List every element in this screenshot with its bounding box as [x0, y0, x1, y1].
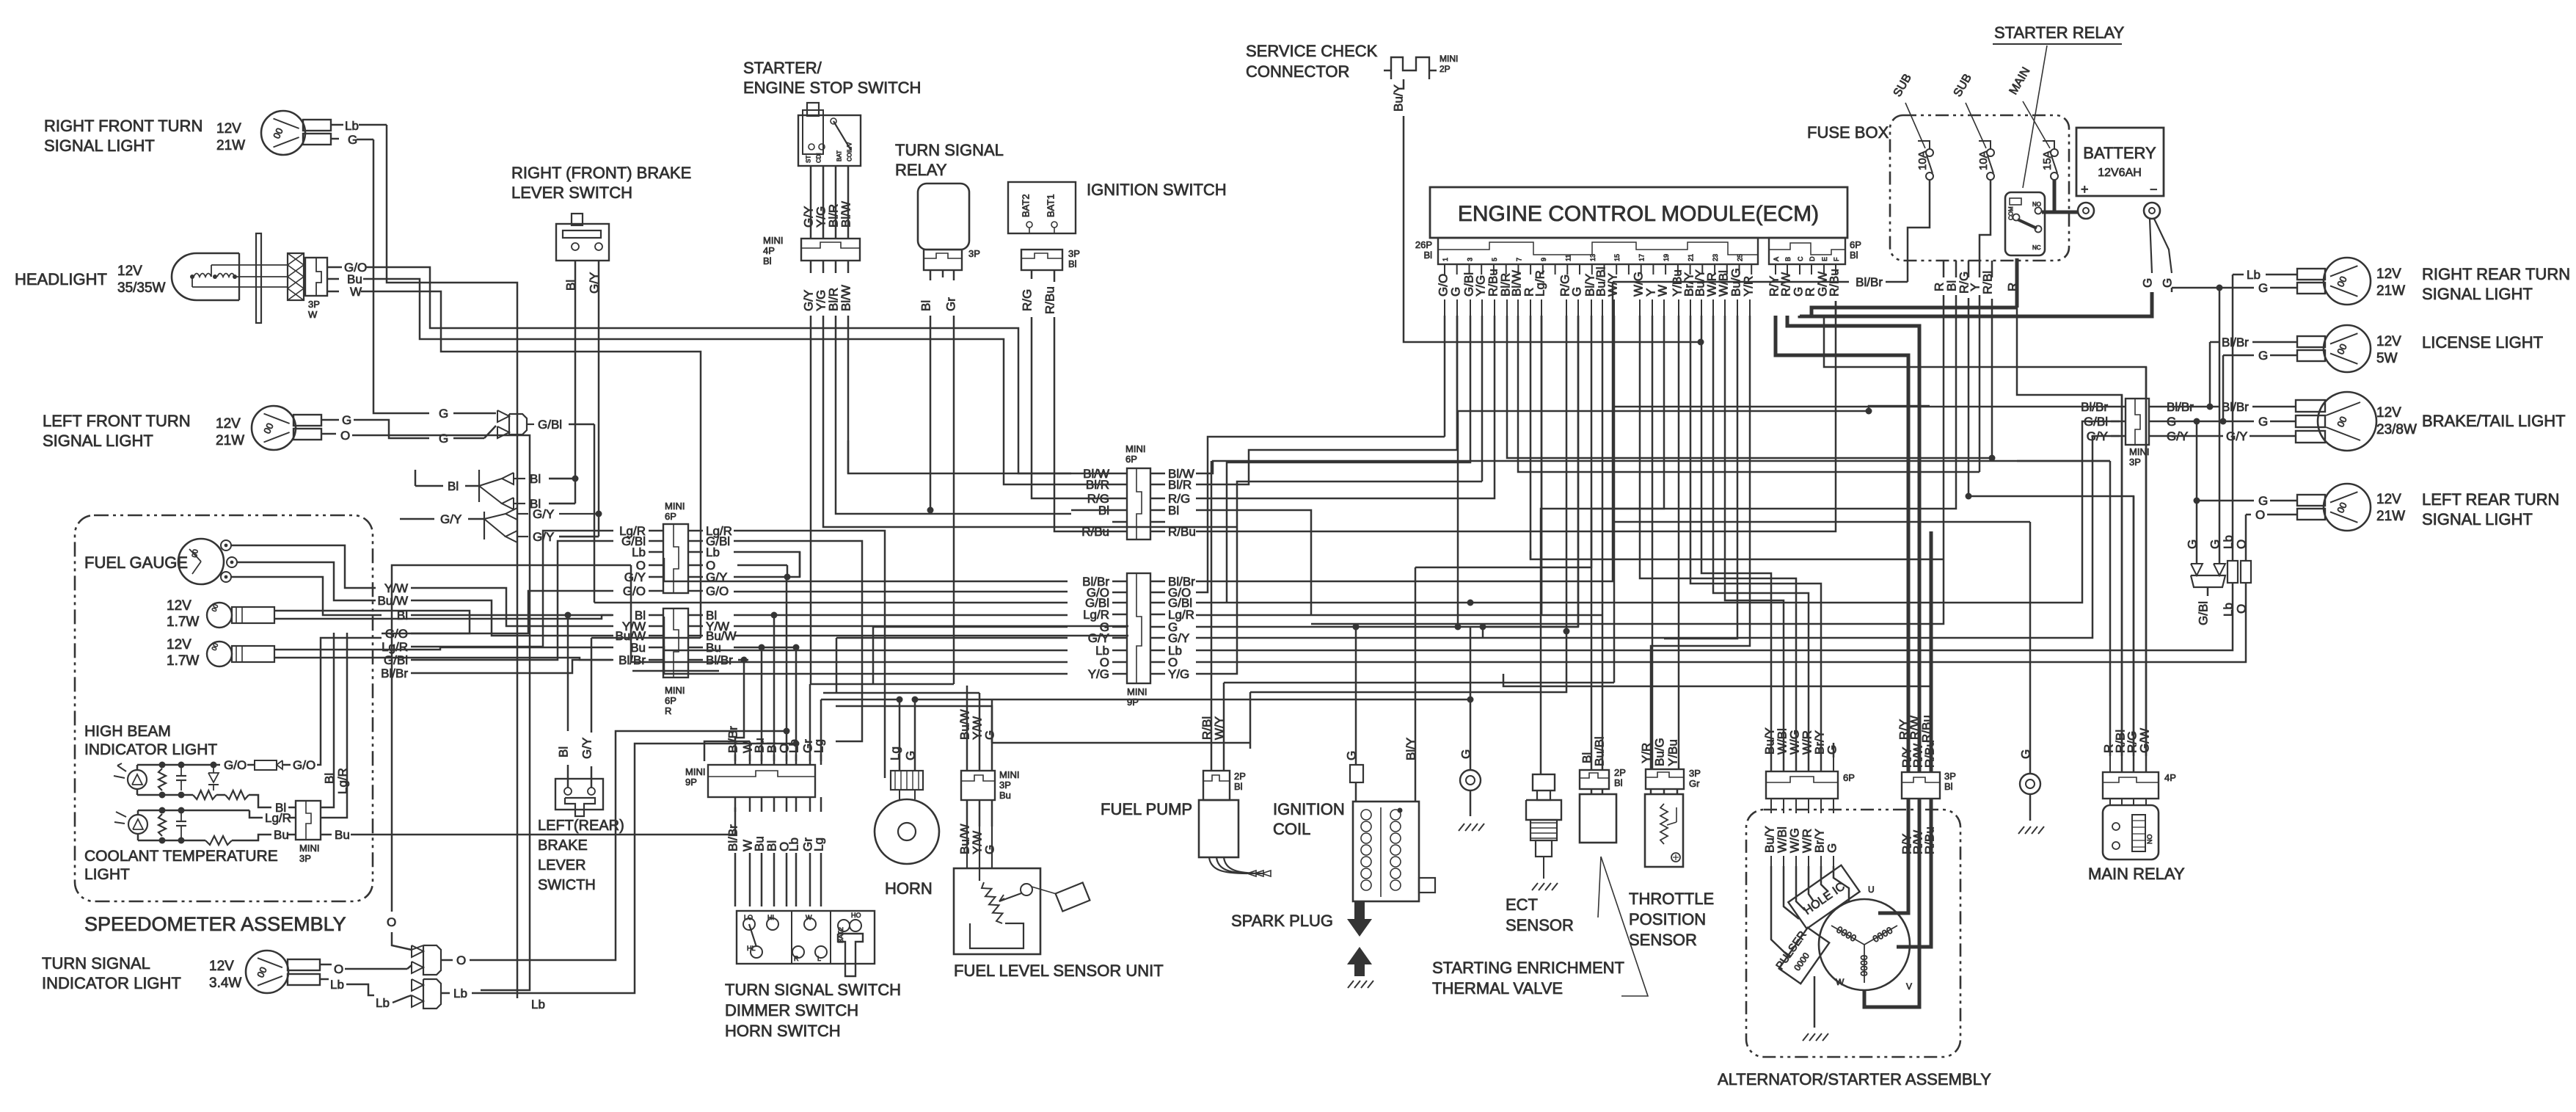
svg-text:ENGINE CONTROL MODULE(ECM): ENGINE CONTROL MODULE(ECM): [1458, 202, 1819, 226]
svg-text:Bl: Bl: [1423, 250, 1432, 261]
svg-text:2P: 2P: [1234, 771, 1246, 782]
wire bus to turn signal switch: [734, 738, 737, 761]
svg-text:HEADLIGHT: HEADLIGHT: [15, 270, 107, 288]
svg-text:6P: 6P: [1843, 772, 1855, 783]
wire Lg/R row right2: [1196, 614, 1602, 617]
turn signal relay: [918, 183, 969, 250]
svg-text:Lb: Lb: [706, 545, 720, 559]
wire ECM W/Y: [1613, 316, 1616, 683]
svg-text:6P: 6P: [1125, 454, 1137, 465]
svg-text:THROTTLE: THROTTLE: [1629, 890, 1714, 908]
ECM 6P connector: [1769, 238, 1845, 264]
svg-text:6P: 6P: [665, 695, 676, 706]
svg-text:R: R: [794, 955, 799, 962]
svg-text:MINI: MINI: [665, 685, 685, 696]
ground ring fuel area: [1460, 770, 1481, 791]
svg-text:G/O: G/O: [293, 758, 315, 772]
svg-text:3P: 3P: [1944, 771, 1956, 782]
wire G vertical rear 1: [2196, 421, 2198, 556]
wire G rear run: [2164, 421, 2181, 423]
headlight bulb: [172, 253, 239, 300]
wire G row junction dots: [1353, 624, 1360, 631]
wire ECM R/G: [1250, 316, 1566, 692]
svg-text:SIGNAL LIGHT: SIGNAL LIGHT: [44, 137, 155, 155]
rear diode pair: [2196, 556, 2198, 564]
svg-text:SIGNAL LIGHT: SIGNAL LIGHT: [2422, 510, 2533, 528]
svg-text:COOLANT TEMPERATURE: COOLANT TEMPERATURE: [84, 848, 278, 865]
svg-text:STARTER/: STARTER/: [743, 59, 822, 77]
wire Bl/W row left: [1071, 473, 1112, 475]
svg-text:+: +: [2081, 182, 2089, 197]
battery negative terminal: [2144, 203, 2160, 219]
resistor high beam: [255, 760, 277, 770]
wire ECM Bu/Bl: [1602, 316, 1604, 615]
svg-text:LEFT(REAR): LEFT(REAR): [538, 818, 624, 834]
high beam resistor leg: [158, 768, 166, 791]
wire Bl row left: [1071, 509, 1112, 512]
svg-text:HIGH BEAM: HIGH BEAM: [84, 723, 171, 740]
fuse SUB 1 label: [1891, 72, 1914, 99]
speedometer assembly box: [75, 515, 373, 901]
wire R/G main relay: [2133, 496, 2135, 756]
ECM 6P pin stubs and labels: [1775, 264, 1776, 275]
wire Y/W row right: [734, 625, 1128, 628]
svg-text:Bl: Bl: [1068, 258, 1077, 269]
svg-text:10A: 10A: [1916, 150, 1929, 170]
svg-text:SPEEDOMETER ASSEMBLY: SPEEDOMETER ASSEMBLY: [84, 913, 346, 935]
headlight socket hatch: [288, 253, 304, 300]
wire ECM R thick: [1811, 308, 2017, 316]
svg-text:Bu: Bu: [274, 828, 289, 842]
wire ECM W: [1541, 316, 1664, 774]
svg-text:LEFT REAR TURN: LEFT REAR TURN: [2422, 490, 2559, 509]
fuse 15A: [2051, 149, 2058, 156]
svg-text:O: O: [334, 962, 343, 976]
wire ECM R/Y thick: [1776, 316, 1908, 772]
svg-text:SPARK PLUG: SPARK PLUG: [1231, 912, 1333, 930]
svg-text:IGNITION SWITCH: IGNITION SWITCH: [1087, 181, 1227, 199]
wire fuel gauge Bl: [231, 577, 382, 615]
wire ECM W/R: [1713, 316, 1809, 771]
svg-text:G/O: G/O: [623, 584, 646, 598]
svg-text:G/Y: G/Y: [440, 512, 461, 526]
wire Bu/Bl link: [1602, 615, 1604, 770]
svg-text:Bu/Bl: Bu/Bl: [1593, 736, 1607, 766]
svg-text:DIMMER SWITCH: DIMMER SWITCH: [725, 1001, 858, 1020]
svg-text:STARTER RELAY: STARTER RELAY: [1994, 23, 2125, 42]
svg-text:5: 5: [1491, 258, 1498, 261]
svg-text:LO: LO: [744, 914, 753, 921]
alternator assembly box: [1746, 810, 1960, 1057]
svg-text:13: 13: [1589, 254, 1597, 261]
ECM 26P pin stubs and labels: [1444, 264, 1445, 275]
svg-text:HL: HL: [747, 945, 756, 952]
svg-text:A: A: [1773, 257, 1780, 261]
svg-text:G: G: [2258, 349, 2268, 363]
svg-text:NO: NO: [2032, 201, 2041, 208]
svg-text:D: D: [1809, 256, 1816, 261]
svg-text:G: G: [1825, 843, 1839, 853]
left front turn signal bulb: [252, 406, 296, 450]
svg-text:G/Bl: G/Bl: [2197, 601, 2211, 625]
wire Bl/Br jog: [411, 660, 613, 673]
ignition coil: [1353, 802, 1419, 901]
svg-text:MINI: MINI: [999, 769, 1019, 780]
pulser ground wire: [1814, 976, 1816, 1028]
svg-text:FUEL PUMP: FUEL PUMP: [1101, 800, 1192, 818]
wire ECM R: [1530, 316, 1944, 559]
svg-text:Lb: Lb: [2222, 603, 2236, 617]
svg-text:W: W: [1656, 285, 1670, 297]
wire ECM Bu/G: [1664, 316, 1737, 639]
wire R/Bu row right long: [1196, 301, 1836, 531]
svg-text:NO: NO: [2146, 835, 2153, 845]
svg-text:9: 9: [1540, 258, 1547, 261]
ECM box: [1430, 187, 1847, 238]
svg-text:TURN SIGNAL: TURN SIGNAL: [42, 954, 150, 973]
wire R/Y thick top: [1907, 744, 1911, 772]
svg-text:BAT1: BAT1: [1045, 194, 1056, 217]
wire G/O from headlight: [366, 267, 1071, 473]
svg-text:21: 21: [1687, 254, 1695, 261]
high beam circuit top rail: [136, 765, 139, 770]
svg-text:G: G: [2208, 539, 2222, 549]
fuse 10A: [1987, 149, 1994, 156]
wire Bl/R stop switch down: [836, 316, 1071, 514]
svg-text:Lg: Lg: [812, 739, 826, 753]
svg-text:Bl: Bl: [397, 608, 408, 622]
wire Y/G row right2: [1196, 481, 1482, 674]
wire Bl up from meter connector: [330, 633, 334, 807]
wire Lg/R jog: [411, 531, 613, 647]
svg-text:Lb: Lb: [2222, 535, 2236, 549]
svg-text:SENSOR: SENSOR: [1506, 916, 1574, 934]
connector ignition 3P: [1021, 250, 1062, 270]
connector MINI 6P R: [663, 608, 688, 677]
wire Lg horn jog: [821, 699, 900, 765]
svg-text:ENGINE STOP SWITCH: ENGINE STOP SWITCH: [743, 79, 921, 97]
svg-text:HORN SWITCH: HORN SWITCH: [725, 1022, 841, 1040]
throttle position sensor body: [1645, 794, 1683, 867]
wire Bl relay down: [930, 316, 932, 510]
wire O vertical rear: [2245, 515, 2247, 556]
fuel gauge: [178, 539, 224, 584]
wire run y700 brake Bl: [549, 503, 575, 505]
wire Y/W jog: [411, 588, 613, 626]
svg-text:MAIN RELAY: MAIN RELAY: [2088, 865, 2185, 883]
wire Y/G drop right: [1503, 674, 1750, 686]
svg-text:B: B: [1784, 257, 1792, 261]
wire Bl/Br row right: [738, 659, 748, 661]
svg-text:12V: 12V: [2376, 492, 2401, 507]
wire run y952 to ground G: [992, 699, 1470, 701]
svg-text:Bl: Bl: [448, 479, 459, 493]
coolant temperature lamp: [128, 815, 147, 834]
svg-text:Bu: Bu: [335, 828, 350, 842]
wire Bl/Br rear run: [1613, 406, 2111, 408]
wire bus center horizontals: [847, 440, 850, 473]
throttle position sensor connector 3P: [1646, 769, 1684, 789]
svg-text:G: G: [983, 845, 997, 854]
svg-text:Y/R: Y/R: [1742, 276, 1756, 297]
svg-text:Bl/Y: Bl/Y: [1404, 738, 1418, 760]
svg-text:6P: 6P: [665, 511, 676, 522]
right front turn signal bulb: [261, 111, 305, 155]
wire ECM Y/G: [1481, 316, 1484, 481]
wire staircase center bottom: [823, 692, 979, 694]
wire ECM Y: [1652, 316, 1654, 769]
svg-text:TURN SIGNAL SWITCH: TURN SIGNAL SWITCH: [725, 981, 901, 999]
starting enrichment leader: [1601, 857, 1648, 996]
svg-text:21W: 21W: [2376, 283, 2405, 299]
wire R/G row left: [1071, 498, 1112, 500]
connector MINI 9P center: [1127, 573, 1150, 683]
svg-text:INDICATOR LIGHT: INDICATOR LIGHT: [42, 974, 181, 992]
svg-text:1.7W: 1.7W: [167, 653, 199, 669]
wire ECM W/G: [1640, 316, 1796, 771]
svg-text:Lb: Lb: [787, 739, 801, 753]
wire left rows extra: [630, 565, 632, 662]
svg-text:U: U: [1868, 884, 1875, 895]
wire G/Bl row right: [734, 541, 862, 697]
svg-text:G: G: [439, 407, 448, 421]
wire G/O jog: [411, 591, 613, 633]
wire fuel gauge Y/W: [231, 545, 376, 588]
wire O from MINI6P down: [392, 565, 631, 912]
alternator thick leads: [1878, 799, 1908, 913]
svg-text:SIGNAL LIGHT: SIGNAL LIGHT: [2422, 285, 2533, 303]
wire meter bulb 1: [274, 611, 470, 633]
svg-text:Bl: Bl: [1168, 504, 1179, 517]
svg-text:BAT: BAT: [836, 150, 843, 161]
svg-text:POSITION: POSITION: [1629, 910, 1706, 929]
wire ECM G thick: [1800, 294, 2152, 316]
svg-text:Bl/Br: Bl/Br: [381, 666, 408, 680]
svg-text:LEVER SWITCH: LEVER SWITCH: [511, 183, 632, 202]
svg-text:Bl: Bl: [530, 472, 541, 486]
svg-text:INDICATOR LIGHT: INDICATOR LIGHT: [84, 741, 217, 758]
wire G left front turn: [354, 420, 400, 438]
service check connector MINI 2P: [1391, 57, 1429, 79]
svg-text:MINI: MINI: [1440, 54, 1458, 64]
svg-text:O: O: [340, 429, 350, 443]
svg-text:Bl/Br: Bl/Br: [2222, 400, 2249, 414]
svg-text:L: L: [817, 955, 821, 962]
fuse 10A: [1926, 149, 1933, 156]
ignition switch: [1008, 182, 1076, 233]
coolant resistor leg: [158, 814, 166, 836]
wire ECM R/W thick: [1787, 316, 1919, 772]
wire Lg/R up from meter connector: [336, 633, 347, 818]
svg-text:Bl/Br: Bl/Br: [2222, 335, 2249, 349]
diode cluster O indicator: [412, 945, 423, 957]
svg-text:Bl: Bl: [564, 280, 578, 291]
wire ECM R/Bu6: [1835, 301, 1837, 316]
connector MINI 6P center: [1127, 468, 1150, 539]
svg-text:Bl: Bl: [919, 300, 933, 311]
svg-text:Lb: Lb: [2247, 268, 2261, 282]
high beam indicator lamp: [128, 770, 147, 789]
svg-text:O: O: [2235, 604, 2249, 614]
svg-text:10A: 10A: [1977, 150, 1990, 170]
wire G alternator: [1833, 743, 1835, 757]
svg-text:Lg/R: Lg/R: [265, 811, 291, 825]
high beam bottom rail: [136, 790, 139, 795]
connector MINI 6P: [663, 524, 688, 593]
svg-text:Lb: Lb: [376, 996, 390, 1010]
svg-text:F: F: [1833, 257, 1840, 261]
svg-text:G: G: [1825, 745, 1839, 755]
svg-text:G/Y: G/Y: [580, 738, 594, 759]
wire W/Y fuel pump: [1223, 743, 1225, 771]
svg-text:Bl: Bl: [1614, 777, 1623, 788]
diode cluster Lb indicator: [412, 979, 423, 991]
wire mid verticals left of MINI9P: [787, 552, 800, 577]
wire R/G ignition down: [1032, 317, 1071, 498]
svg-text:ECT: ECT: [1506, 895, 1538, 914]
svg-text:G: G: [342, 413, 351, 427]
wire extra run y762: [1530, 550, 1532, 559]
svg-text:LICENSE LIGHT: LICENSE LIGHT: [2422, 333, 2543, 352]
svg-text:R: R: [665, 705, 671, 716]
svg-text:FUSE BOX: FUSE BOX: [1807, 123, 1889, 142]
wire G/Y rear run: [2164, 435, 2178, 437]
svg-text:G/O: G/O: [385, 627, 408, 641]
wire Bl/Y ignition coil: [1415, 567, 1417, 802]
svg-text:BRAKE/TAIL LIGHT: BRAKE/TAIL LIGHT: [2422, 412, 2566, 430]
wire headlight W long: [836, 638, 838, 693]
ECM 26P connector: [1438, 238, 1758, 264]
wire ECM Lg/R: [1541, 316, 1543, 615]
svg-text:1: 1: [1442, 258, 1449, 261]
connector MINI 3P rear: [2126, 399, 2149, 445]
svg-text:23/8W: 23/8W: [2376, 422, 2417, 437]
svg-text:12V: 12V: [216, 416, 241, 432]
svg-text:G: G: [2161, 278, 2175, 288]
svg-text:RIGHT FRONT TURN: RIGHT FRONT TURN: [44, 117, 202, 135]
wire meter bulb 2: [274, 647, 613, 650]
connector MINI 9P switch: [708, 765, 815, 797]
svg-text:Lb: Lb: [330, 978, 344, 992]
svg-text:12V: 12V: [2376, 405, 2401, 421]
wire R/Bl main relay: [2121, 395, 2123, 756]
wire O row right: [737, 564, 787, 567]
svg-text:Bl: Bl: [1850, 250, 1858, 261]
svg-text:V: V: [1906, 981, 1912, 992]
svg-text:15: 15: [1613, 254, 1621, 261]
svg-text:HO: HO: [851, 912, 861, 919]
wire center long y1012: [992, 742, 1250, 744]
svg-text:Lb: Lb: [531, 997, 545, 1011]
fuel level sensor unit: [954, 868, 1040, 954]
svg-text:3P: 3P: [999, 780, 1011, 791]
wire G/O row right: [734, 591, 1068, 593]
svg-text:26P: 26P: [1415, 239, 1432, 250]
wire Y/G stop switch down: [823, 316, 1237, 527]
wire Bl/R row left: [1071, 484, 1112, 486]
svg-text:Bl/Br: Bl/Br: [726, 824, 740, 851]
svg-text:12V: 12V: [2376, 334, 2401, 349]
svg-text:NC: NC: [2032, 244, 2041, 251]
svg-text:BRAKE: BRAKE: [538, 837, 588, 854]
svg-text:3P: 3P: [299, 853, 311, 864]
svg-text:35/35W: 35/35W: [117, 280, 166, 296]
fuel pump pipes: [1209, 857, 1247, 873]
coolant capacitor: [176, 821, 186, 822]
main relay: [2103, 805, 2159, 860]
svg-text:G: G: [1570, 287, 1584, 297]
wire O indicator output: [470, 731, 787, 960]
alternator wires to hole IC: [1771, 866, 1790, 958]
wire G row right: [1196, 316, 1578, 627]
wire Gr relay jog: [810, 683, 954, 686]
starting enrichment thermal valve body: [1580, 794, 1616, 843]
alternator: [1819, 899, 1910, 990]
wire staircase switch: [704, 741, 750, 761]
wire G right rear: [2172, 287, 2254, 289]
svg-text:G/W: G/W: [2138, 728, 2152, 753]
turn signal switch lever: [838, 934, 863, 976]
wire Lb right rear: [2233, 274, 2244, 276]
pulser: [1779, 928, 1829, 984]
svg-text:G/Bl: G/Bl: [2084, 415, 2108, 429]
turn signal indicator bulb: [246, 951, 288, 993]
svg-text:Bl/Br: Bl/Br: [2167, 400, 2194, 414]
wire ECM G/W: [1824, 316, 2146, 772]
svg-text:12V: 12V: [117, 264, 142, 279]
svg-text:Lg/R: Lg/R: [1533, 270, 1547, 297]
wire Lb indicator output: [472, 744, 796, 993]
wire ECM Bl/Y: [1415, 316, 1591, 567]
svg-text:MINI: MINI: [665, 501, 685, 512]
svg-text:MINI: MINI: [1125, 443, 1145, 454]
svg-text:LEVER: LEVER: [538, 857, 586, 873]
svg-text:E: E: [1821, 257, 1828, 261]
wire Bl left rear brake: [567, 765, 569, 788]
svg-text:W: W: [350, 285, 362, 299]
battery: [2076, 128, 2164, 196]
wire Lb row right2: [1196, 587, 2233, 650]
svg-text:Lb: Lb: [632, 545, 646, 559]
svg-text:G: G: [2258, 281, 2268, 295]
svg-text:12V: 12V: [167, 598, 191, 614]
wire G ignition coil: [1355, 627, 1357, 765]
svg-text:Bl/Br: Bl/Br: [619, 653, 646, 667]
wire Gr relay down: [953, 316, 955, 684]
svg-text:RIGHT (FRONT) BRAKE: RIGHT (FRONT) BRAKE: [511, 164, 691, 182]
wire G down to diode cluster: [373, 139, 400, 413]
wire W/Y link: [1224, 682, 1614, 684]
wire ECM Bl/W: [1518, 316, 1980, 472]
rear terminal Lb: [2232, 556, 2234, 561]
svg-text:Y/Bu: Y/Bu: [1666, 739, 1680, 766]
svg-text:Lg/R: Lg/R: [336, 768, 350, 794]
svg-text:G/Y: G/Y: [624, 570, 646, 584]
svg-text:Y/G: Y/G: [1088, 667, 1109, 681]
svg-text:G: G: [348, 133, 357, 147]
wire Lb row right: [734, 552, 800, 577]
svg-text:G: G: [439, 432, 448, 446]
svg-text:21W: 21W: [216, 433, 244, 448]
horn: [875, 799, 939, 864]
svg-text:FUEL LEVEL SENSOR UNIT: FUEL LEVEL SENSOR UNIT: [954, 962, 1164, 980]
svg-text:Bu: Bu: [999, 790, 1011, 801]
fuse box: [1890, 115, 2069, 261]
svg-text:21W: 21W: [2376, 509, 2405, 524]
wire O left front turn to indicator: [352, 435, 530, 990]
wire ECM G/Bl: [1227, 316, 1470, 603]
svg-text:G/Y: G/Y: [2226, 429, 2247, 443]
